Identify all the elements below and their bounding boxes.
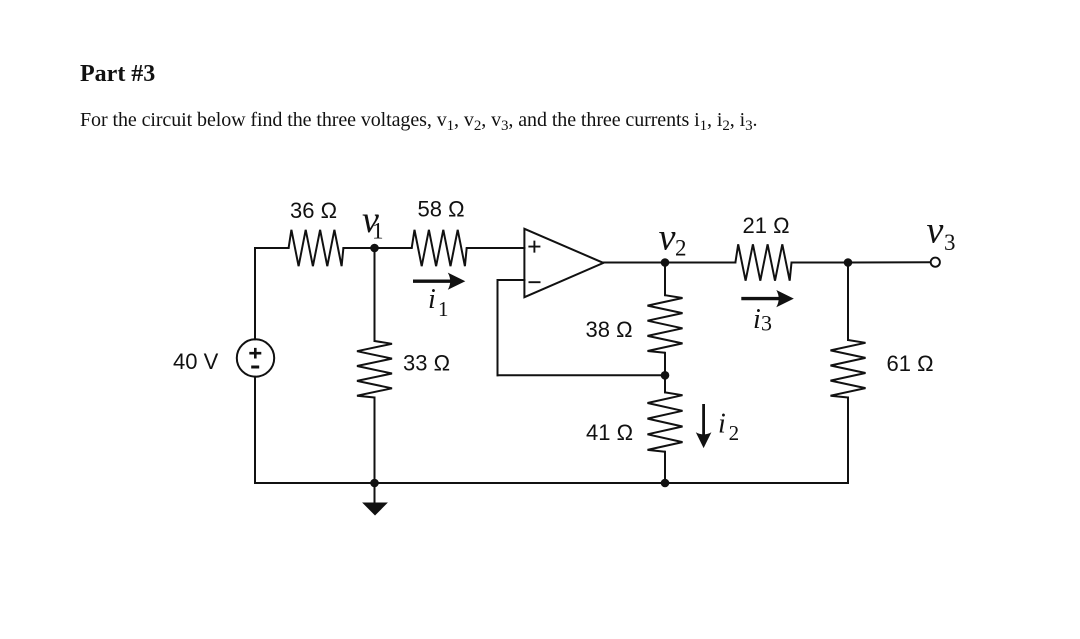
voltage source 40V <box>237 339 274 376</box>
wire bottom rail <box>255 482 848 484</box>
svg-text:2: 2 <box>675 235 687 260</box>
ground <box>363 503 386 515</box>
svg-text:3: 3 <box>761 311 772 336</box>
svg-text:3: 3 <box>944 230 956 255</box>
wire ground stem <box>374 483 376 503</box>
svg-text:i: i <box>428 284 436 315</box>
resistor 61 ohm <box>831 340 866 398</box>
resistor 21 ohm <box>735 244 791 280</box>
wire v2 down to 38ohm <box>664 263 666 296</box>
svg-text:For the circuit below find the: For the circuit below find the three vol… <box>80 109 757 134</box>
svg-text:36 Ω: 36 Ω <box>290 198 337 223</box>
bottom node dot at 41 ohm <box>661 479 670 488</box>
wire feedback node to 41ohm <box>664 375 666 392</box>
svg-text:61 Ω: 61 Ω <box>887 351 934 376</box>
wire 33ohm to bottom rail <box>374 398 376 484</box>
arrow i3 <box>741 290 794 307</box>
wire between 36ohm and 58ohm through node v1 <box>343 247 411 249</box>
wire 38ohm to feedback node <box>664 353 666 376</box>
wire feedback vertical <box>497 280 499 375</box>
right node junction dot <box>844 258 853 267</box>
wire right node down to 61ohm <box>847 263 849 341</box>
svg-text:i: i <box>718 409 726 440</box>
svg-text:58 Ω: 58 Ω <box>418 197 465 222</box>
wire 21ohm to right node <box>792 262 849 264</box>
svg-text:1: 1 <box>372 219 384 244</box>
wire left vertical above source <box>254 248 256 339</box>
wire right node to v3 terminal <box>848 261 930 263</box>
wire feedback horizontal to node <box>498 374 666 376</box>
arrow i2 <box>696 404 712 448</box>
svg-text:Part #3: Part #3 <box>80 61 155 87</box>
node v1 junction dot <box>370 244 379 253</box>
arrow i1 <box>413 273 465 290</box>
wire op-amp minus input lead <box>498 279 525 281</box>
svg-text:i: i <box>753 304 761 335</box>
svg-text:v: v <box>927 210 944 252</box>
wire 41ohm to bottom rail <box>664 452 666 483</box>
svg-text:40 V: 40 V <box>173 349 219 374</box>
bottom node dot at ground <box>370 479 379 488</box>
wire op-amp output to 21ohm <box>603 262 735 264</box>
svg-text:33 Ω: 33 Ω <box>403 351 450 376</box>
resistor 41 ohm <box>648 392 683 451</box>
node v2 junction dot <box>661 258 670 267</box>
wire 58ohm to op-amp + input <box>467 247 525 249</box>
svg-text:2: 2 <box>729 421 740 445</box>
resistor 36 ohm <box>289 230 344 266</box>
resistor 38 ohm <box>648 295 683 353</box>
v3 open terminal <box>931 258 940 267</box>
feedback node junction dot <box>661 371 670 380</box>
wire v1 down to 33ohm <box>374 248 376 341</box>
svg-text:41 Ω: 41 Ω <box>586 420 633 445</box>
wire top-left horizontal <box>255 247 289 249</box>
op-amp U1 <box>524 229 603 297</box>
wire left vertical below source <box>254 377 256 483</box>
svg-text:21 Ω: 21 Ω <box>743 213 790 238</box>
resistor 33 ohm <box>357 341 392 398</box>
wire 61ohm to bottom rail <box>847 398 849 484</box>
resistor 58 ohm <box>412 230 467 266</box>
svg-text:38 Ω: 38 Ω <box>586 317 633 342</box>
svg-text:v: v <box>659 216 676 258</box>
svg-text:1: 1 <box>438 297 449 321</box>
